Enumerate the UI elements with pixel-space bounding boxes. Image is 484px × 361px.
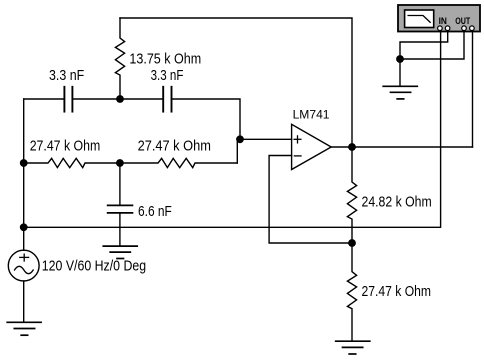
AC source V1: [8, 250, 39, 281]
svg-text:LM741: LM741: [293, 108, 330, 122]
svg-text:27.47 k Ohm: 27.47 k Ohm: [362, 284, 432, 300]
wire top from R3 to output column: [120, 18, 352, 147]
resistor R3 13.75k vertical: [115, 18, 124, 99]
node dot left resistor: [20, 159, 28, 167]
ground G4 under bode plotter: [383, 86, 417, 99]
capacitor C2 3.3nF: [163, 87, 171, 112]
op-amp plus symbol: [294, 136, 301, 143]
svg-text:27.47 k Ohm: 27.47 k Ohm: [138, 139, 211, 155]
svg-text:120 V/60 Hz/0 Deg: 120 V/60 Hz/0 Deg: [42, 259, 146, 275]
node dot top tee: [116, 95, 124, 103]
op-amp U1 LM741: [292, 124, 332, 169]
capacitor C3 6.6nF vertical: [119, 163, 121, 205]
wire R2 up to plus node: [237, 139, 240, 163]
wire op-amp output: [331, 146, 472, 148]
capacitor C1 3.3nF: [64, 87, 72, 112]
resistor R4 27.47k vertical: [347, 243, 356, 341]
bode plotter terminal OUT+: [462, 26, 467, 31]
wire ground node down: [399, 59, 401, 86]
node dot plus input: [236, 135, 244, 143]
bode plotter screen: [405, 10, 434, 28]
wire C3 to ground: [119, 213, 121, 246]
node dot feedback: [348, 239, 356, 247]
wire between C1 and C2: [72, 98, 163, 100]
svg-text:3.3 nF: 3.3 nF: [151, 68, 184, 84]
resistor R5 24.82k vertical: [347, 147, 356, 243]
node dot output: [348, 143, 356, 151]
wire source to ground: [23, 281, 25, 322]
svg-text:13.75 k Ohm: 13.75 k Ohm: [129, 52, 201, 68]
svg-text:27.47 k Ohm: 27.47 k Ohm: [30, 139, 101, 155]
bode plotter terminal IN+: [438, 26, 443, 31]
wire IN minus terminal to ground node: [400, 29, 448, 59]
wire plus input: [240, 138, 292, 140]
wire OUT plus terminal to ground node: [400, 29, 464, 59]
wire from C2 down to op-amp plus node: [172, 99, 241, 139]
node dot instrument ground: [396, 55, 404, 63]
bode plotter terminal IN-: [445, 26, 450, 31]
svg-text:6.6 nF: 6.6 nF: [138, 204, 172, 220]
wire left column: [23, 99, 25, 250]
ground G3 under R4: [336, 341, 370, 354]
resistor R1 27.47k horizontal: [24, 158, 120, 167]
node dot mid tee: [116, 159, 124, 167]
op-amp minus symbol: [294, 155, 301, 157]
svg-text:3.3 nF: 3.3 nF: [49, 68, 84, 84]
node dot source: [20, 223, 28, 231]
wire minus input feedback: [269, 156, 352, 244]
bode plotter XBP1 box: [398, 5, 480, 32]
bode plotter terminal OUT-: [470, 26, 475, 31]
bode plotter screen curve: [408, 16, 430, 23]
svg-text:IN: IN: [439, 16, 447, 26]
ground G2 under C3: [103, 246, 137, 258]
ground G1 under source: [7, 322, 41, 335]
resistor R2 27.47k horizontal: [120, 158, 237, 167]
wire OUT right terminal down: [472, 29, 474, 147]
svg-text:OUT: OUT: [455, 16, 470, 26]
wire top tee row left: [24, 98, 65, 100]
svg-text:24.82 k Ohm: 24.82 k Ohm: [362, 195, 432, 211]
wire source line long: [24, 29, 441, 227]
